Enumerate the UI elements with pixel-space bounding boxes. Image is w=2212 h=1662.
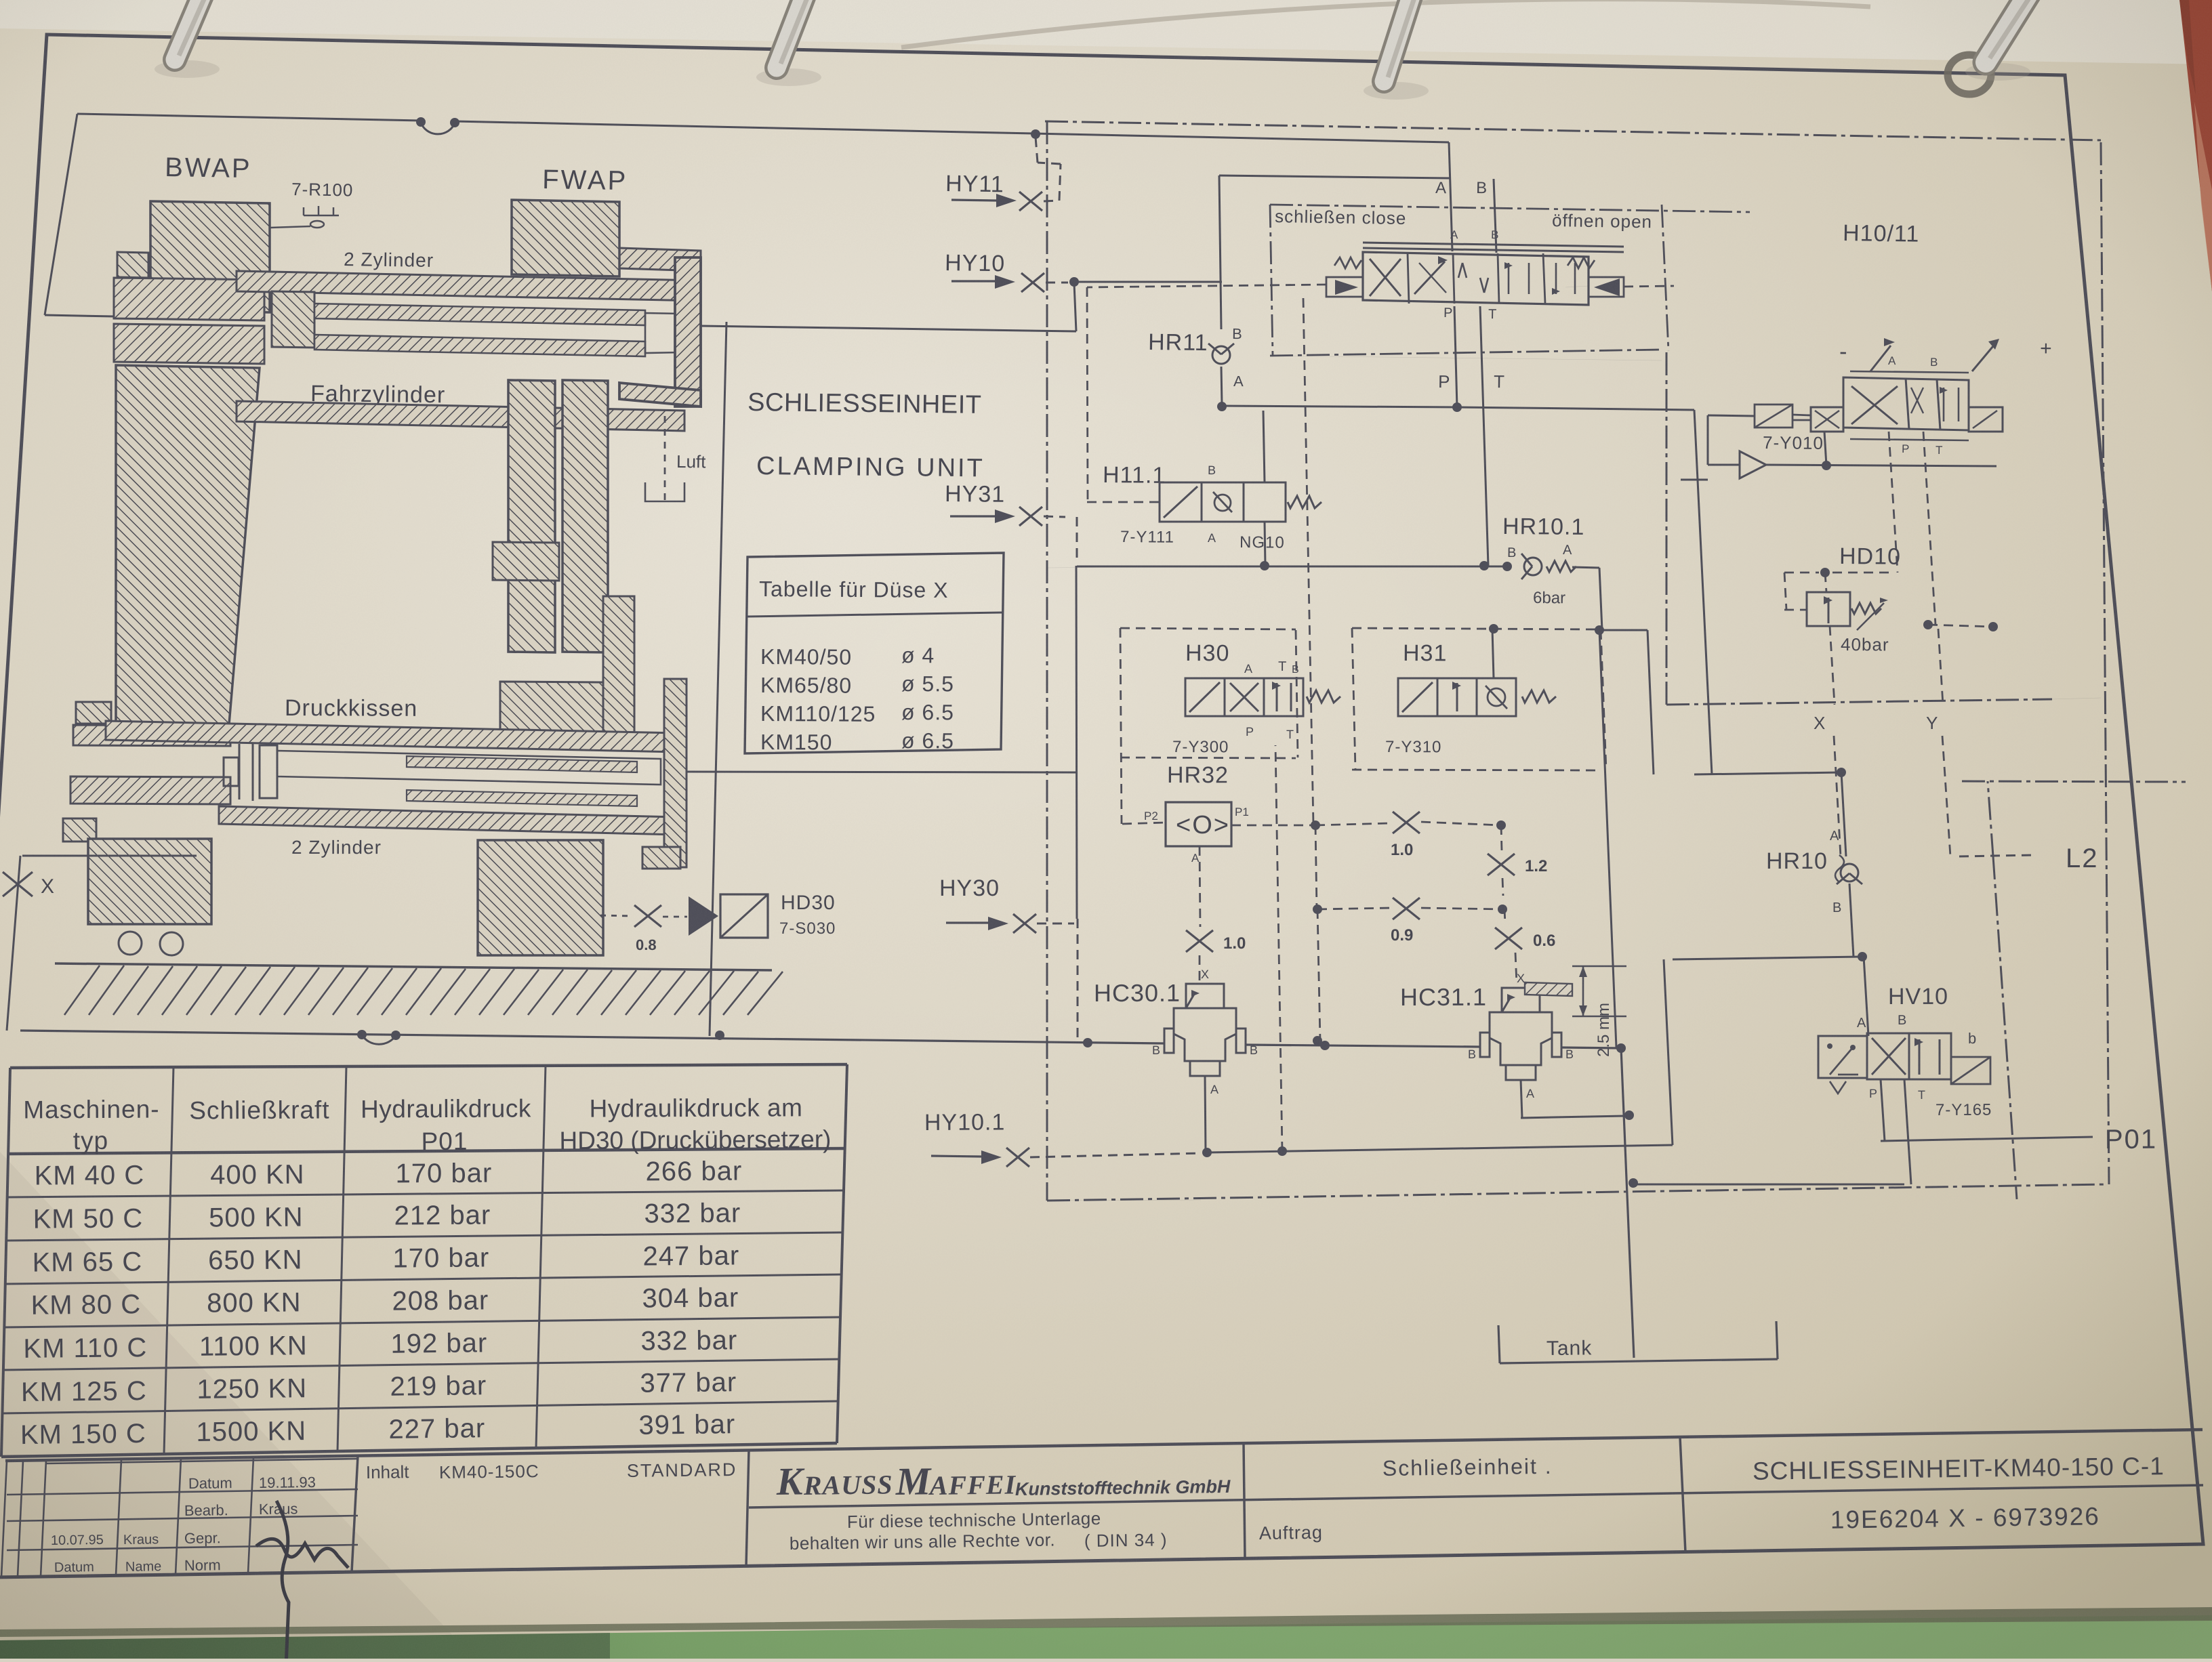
wire valve B-side box to HR11 vertical: [1219, 175, 1451, 329]
orifice 1.0 row1: [1391, 812, 1420, 859]
main line B rail through cartridges: [20, 1030, 1626, 1053]
Fahrzylinder bottom wall: [237, 401, 684, 431]
valve H30 dashed enclosure: [1120, 628, 1298, 824]
valve H10/11 left pilot dash to network: [1087, 285, 1326, 287]
pressure intensifier HD30 symbol 7-S030: [689, 892, 836, 938]
nozzle table box Tabelle fuer Duese X: [745, 553, 1004, 754]
BWAP main column: [116, 365, 260, 724]
wire HV10 T to tank: [1633, 1079, 1911, 1184]
right inner dash-dot boundary: [1666, 352, 2101, 705]
lower right bracket big: [500, 682, 603, 749]
machine table rows text: [20, 1157, 743, 1451]
port P line down: [1438, 306, 1462, 412]
top pipe rail with jumper: [77, 114, 1449, 142]
pilot Y line down: [1926, 629, 1950, 856]
pilot X line down: [1814, 626, 1841, 856]
subsystem boundary dash-dot box: [1045, 121, 2109, 1201]
wire junction 835 down to HC30 line: [1076, 566, 1078, 1041]
Luft vent funnel: [645, 416, 706, 501]
machine table header text: [23, 1094, 831, 1155]
pilot dashed to HC30.1 X port: [1313, 909, 1322, 1045]
valve HY10.1 manual test point: [924, 1109, 1212, 1167]
Druckkissen piston group: [224, 743, 661, 806]
Fahrzylinder right end cap bottom: [619, 383, 701, 407]
wire HR10 branch: [1841, 772, 1846, 856]
valve X at left margin: [3, 856, 197, 1031]
title order cell: [1259, 1454, 1553, 1543]
lower right wall: [603, 596, 634, 748]
Druckkissen right end bracket wall: [664, 679, 687, 867]
FWAP support column right: [562, 380, 608, 652]
cartridge valve HC31.1: [1400, 972, 1574, 1100]
pipe cylinder lower port down to main rail: [710, 322, 726, 1040]
check valve HR11: [1148, 325, 1244, 411]
wire HY10 junction to HR11 line: [1074, 281, 1222, 283]
Tank sump symbol: [1498, 1321, 1778, 1363]
Fahrzylinder piston head: [272, 291, 314, 348]
Fahrzylinder inner rod core: [645, 313, 682, 353]
wire HV10 A feed: [1864, 957, 1868, 1036]
wire A-supply to right corner: [1222, 406, 1846, 777]
Fahrzylinder piston rod lower: [314, 335, 645, 356]
valve HY31 manual test point: [945, 481, 1077, 562]
background red table corner: [2179, 0, 2212, 291]
title block grid: [5, 1430, 2203, 1572]
wire HC30.1 A port down: [1205, 1076, 1206, 1152]
valve pilot dashed line left down to H11.1: [1087, 287, 1160, 502]
pressure relief valve HD10: [1784, 543, 1901, 655]
FWAP front platen top block: [512, 200, 619, 276]
orifice 1.0 below HR32: [1186, 930, 1246, 984]
Krauss Maffei logo cell: [775, 1459, 1231, 1554]
background green table strip: [0, 1615, 2212, 1659]
labels A B above valve: [1435, 179, 1496, 253]
machine base wheels: [119, 932, 183, 955]
lower support column: [478, 840, 603, 955]
solenoid valve HV10 7-Y165: [1818, 984, 1992, 1119]
binder ring 3: [1364, 0, 1429, 100]
wire HR10.1 down to valves H30 H31: [1599, 630, 1654, 1047]
orifice 0.8: [600, 905, 687, 953]
valve HY30 manual test point: [939, 875, 1074, 933]
proportional valve 7-Y010 block: [1755, 337, 2052, 457]
BWAP lower notch: [76, 702, 111, 724]
Druckkissen top wall: [106, 721, 678, 752]
binder ring 2: [756, 0, 821, 86]
port T line down: [1479, 306, 1504, 570]
orifice 0.6 branch: [1495, 909, 1555, 984]
wire A-return line to right: [1207, 745, 1867, 1156]
valve HY10 manual test point: [945, 250, 1079, 292]
tank drop line: [1621, 1048, 1638, 1358]
main pressure line A to HR10.1: [1047, 562, 1512, 571]
BWAP rear platen top block: [150, 201, 270, 312]
pilot dashed network row1: [1231, 820, 1506, 830]
lower bracket under cylinder right end: [493, 542, 559, 581]
Fahrzylinder right end cap top: [619, 248, 701, 271]
inspector signature scribble: [256, 1501, 348, 1662]
FWAP support column left: [508, 380, 555, 652]
pilot lines X Y below 7-Y010: [1820, 432, 1998, 631]
BWAP flange notch: [117, 252, 148, 278]
label 7-R100 with ground symbol: [270, 179, 354, 228]
BWAP cylinder flange lower bar: [114, 324, 264, 364]
title small revision table left: [1, 1457, 358, 1577]
check valve HR10: [1766, 829, 1862, 957]
HC31.1 seat hatch and 2.5mm dimension: [1525, 966, 1626, 1057]
pipe Druckkissen to HC30 vertical: [687, 772, 1076, 772]
valve H31 dashed enclosure: [1352, 628, 1606, 770]
pilot dashed drop from H30: [1303, 298, 1313, 825]
Druckkissen flange lower bar: [70, 776, 230, 804]
valve H31 solenoid valve 7-Y310: [1385, 624, 1556, 756]
pilot operated valve H10/11 main block: [1326, 228, 1674, 322]
shuttle valve HR32: [1122, 762, 1249, 927]
title block content cell: [366, 1459, 737, 1482]
amplifier triangle and feedback loop: [1681, 415, 1996, 480]
Fahrzylinder right end cap wall: [675, 257, 701, 407]
binder ring 1: [155, 0, 220, 78]
title drawing name cell: [1753, 1452, 2165, 1534]
wire HV10 P to P01: [1881, 1079, 2157, 1155]
Druckkissen right end bracket foot: [642, 847, 680, 869]
check valve HR10.1 6bar: [1502, 514, 1604, 635]
inner valve dash-dot box: [1270, 205, 1750, 360]
orifice 0.9 row2: [1391, 898, 1420, 944]
orifice 1.2 branch: [1488, 825, 1547, 896]
inner enclosure box mechanical area: [45, 114, 114, 316]
machine ground hatching: [55, 963, 783, 1015]
BWAP base block: [88, 839, 211, 924]
rail corner down to valve port A: [1449, 142, 1452, 251]
valve H30 solenoid valve 7-Y300: [1172, 659, 1340, 756]
Fahrzylinder piston rod upper: [314, 304, 645, 325]
machine data table grid: [1, 1064, 847, 1457]
valve H11.1 pilot check: [1103, 411, 1322, 570]
valve HY11 manual test point: [945, 137, 1061, 211]
Druckkissen flange upper bar: [73, 725, 230, 746]
binder ring 4: [1948, 0, 2041, 94]
BWAP base notch: [63, 818, 96, 842]
wire HC31.1 A to tank line: [1521, 1080, 1634, 1120]
labels schliessen close oeffnen open: [1275, 206, 1652, 232]
Druckkissen bottom wall: [219, 806, 678, 835]
Fahrzylinder top wall: [237, 271, 701, 301]
L2 connection: [1959, 781, 2186, 1199]
pilot dashed network row2: [1313, 825, 1507, 914]
cartridge valve HC30.1: [1094, 968, 1258, 1096]
BWAP cylinder flange upper bar: [114, 278, 264, 320]
pipe cylinder to HR11 junction: [701, 283, 1076, 331]
paper curl shadow top: [901, 0, 1870, 47]
